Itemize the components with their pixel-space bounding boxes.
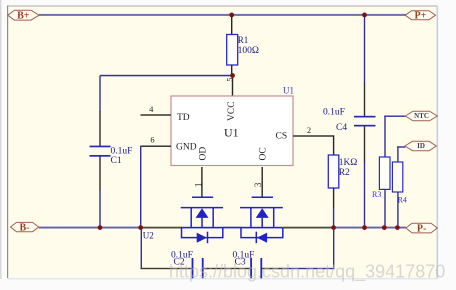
svg-text:U1: U1 — [283, 86, 294, 96]
svg-text:C1: C1 — [111, 156, 122, 166]
svg-text:CS: CS — [276, 132, 288, 142]
svg-text:2: 2 — [307, 125, 311, 135]
svg-text:0.1uF: 0.1uF — [111, 146, 133, 156]
svg-text:6: 6 — [150, 134, 154, 144]
svg-text:R3: R3 — [372, 190, 381, 199]
svg-text:R4: R4 — [398, 195, 407, 204]
svg-text:https://blog.csdn.net/qq_39417: https://blog.csdn.net/qq_39417870 — [169, 262, 445, 283]
svg-text:B+: B+ — [17, 11, 30, 22]
svg-text:U1: U1 — [224, 126, 239, 140]
svg-text:1: 1 — [193, 183, 203, 188]
svg-text:U2: U2 — [143, 230, 154, 240]
svg-text:R2: R2 — [339, 168, 350, 178]
svg-text:GND: GND — [176, 142, 197, 152]
svg-text:4: 4 — [149, 104, 154, 114]
svg-text:1KΩ: 1KΩ — [339, 158, 358, 168]
svg-text:C4: C4 — [336, 123, 347, 133]
svg-text:TD: TD — [177, 113, 190, 123]
svg-text:P+: P+ — [414, 11, 426, 22]
svg-text:P-: P- — [417, 224, 426, 235]
svg-text:NTC: NTC — [414, 112, 429, 120]
svg-text:0.1uF: 0.1uF — [323, 108, 345, 118]
svg-text:B-: B- — [20, 223, 30, 234]
svg-text:ID: ID — [417, 142, 425, 150]
svg-text:R1: R1 — [238, 35, 249, 45]
svg-text:OC: OC — [258, 147, 268, 160]
svg-text:VCC: VCC — [227, 101, 237, 121]
svg-text:100Ω: 100Ω — [238, 46, 259, 56]
svg-text:3: 3 — [253, 182, 263, 187]
svg-text:OD: OD — [198, 147, 208, 161]
svg-text:5: 5 — [225, 78, 234, 82]
